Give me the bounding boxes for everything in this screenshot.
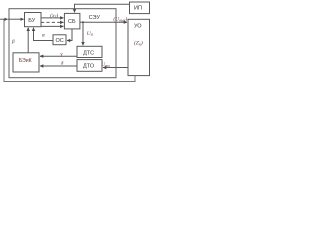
block ДТС — [77, 46, 102, 57]
svg-text:(х3): (х3) — [50, 12, 58, 19]
svg-text:(Zн): (Zн) — [134, 40, 143, 47]
block ДТО — [77, 60, 102, 72]
wire: feedback loop from УО bottom around left side to input — [4, 19, 135, 81]
svg-text:Uд: Uд — [87, 31, 93, 37]
svg-text:ОС: ОС — [55, 38, 63, 44]
svg-text:ДТО: ДТО — [83, 64, 95, 70]
wire УО→ДТО Uто — [103, 67, 128, 69]
block ОС — [53, 35, 66, 45]
wire ОС→БУ alpha — [34, 28, 54, 41]
svg-text:БУ: БУ — [28, 18, 35, 24]
wire СБ→ОС — [67, 29, 72, 41]
svg-text:ДТС: ДТС — [83, 50, 94, 56]
svg-text:Uто: Uто — [101, 62, 110, 68]
wire БУ→СБ x3 top solid — [41, 17, 63, 19]
wire СБ→УО Uвых — [80, 21, 127, 23]
block ИП — [130, 2, 150, 14]
wire БУ→СБ x3 middle dashed — [41, 21, 63, 23]
block УО — [128, 19, 150, 75]
svg-text:СБ: СБ — [68, 19, 76, 25]
block СБ — [64, 13, 80, 29]
block БУ — [25, 13, 42, 27]
enclosure box СЭУ — [9, 9, 116, 78]
wire БУ→СБ x3 bottom solid — [41, 25, 63, 27]
junction dot on Uвых wire — [82, 21, 84, 23]
svg-text:α: α — [42, 32, 45, 38]
wire: input arrow into БУ — [8, 18, 24, 20]
svg-text:β: β — [11, 39, 15, 45]
wire ДТО→БЭиК delta — [40, 65, 77, 67]
svg-text:ИП: ИП — [134, 6, 142, 12]
wire ДТС→БЭиК gamma — [40, 55, 77, 57]
svg-text:СЭУ: СЭУ — [89, 15, 101, 21]
block БЭиК — [13, 53, 39, 72]
svg-text:δ: δ — [61, 61, 64, 67]
wire: input arrow into box — [0, 18, 8, 20]
svg-text:УО: УО — [134, 24, 142, 30]
svg-text:БЭиК: БЭиК — [19, 58, 32, 64]
wire ИП→СБ — [75, 4, 130, 12]
wire БЭиК→БУ beta — [27, 28, 29, 53]
wire branch Uд down to ДТС — [82, 22, 84, 45]
svg-text:(Uвых): (Uвых) — [113, 16, 127, 23]
